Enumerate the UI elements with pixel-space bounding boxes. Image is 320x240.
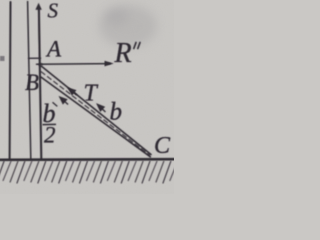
svg-text:A: A — [45, 37, 62, 62]
svg-text:C: C — [154, 133, 171, 159]
svg-text:B: B — [25, 70, 39, 95]
svg-text:S: S — [48, 0, 59, 23]
svg-text:2: 2 — [44, 123, 56, 148]
svg-text:R: R — [114, 38, 132, 69]
svg-text:T: T — [84, 81, 99, 107]
svg-text:b: b — [110, 99, 123, 126]
